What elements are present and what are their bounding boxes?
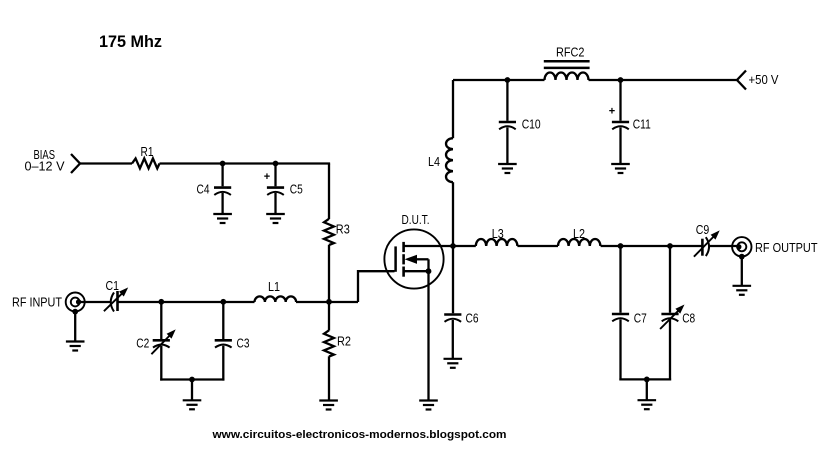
wire connector to ground — [74, 312, 76, 342]
svg-text:www.circuitos-electronicos-mod: www.circuitos-electronicos-modernos.blog… — [211, 429, 506, 441]
wire C7 C8 bottom rail — [619, 378, 671, 380]
svg-text:C3: C3 — [237, 336, 250, 351]
svg-text:L2: L2 — [573, 226, 585, 241]
channel segment middle — [402, 254, 405, 264]
svg-text:0–12 V: 0–12 V — [25, 159, 65, 174]
wire node to R2 — [328, 302, 330, 331]
R3 label — [336, 222, 350, 237]
L4 label — [428, 154, 440, 169]
wire C4 drop — [221, 164, 223, 187]
wire C10 to ground — [506, 128, 508, 165]
svg-text:RFC2: RFC2 — [556, 45, 585, 60]
BIAS terminal — [71, 154, 80, 173]
wire top rail left — [453, 79, 545, 81]
svg-text:C1: C1 — [106, 278, 120, 293]
capacitor C9 variable — [694, 230, 720, 256]
svg-text:C2: C2 — [136, 336, 149, 351]
svg-text:+50 V: +50 V — [749, 72, 779, 87]
svg-text:C4: C4 — [197, 181, 210, 196]
svg-text:+: + — [609, 106, 615, 118]
wire drain up — [452, 80, 454, 138]
capacitor C7 — [612, 311, 647, 326]
L2 label — [573, 226, 585, 241]
ground RF input — [66, 342, 85, 351]
wire top rail right — [589, 79, 738, 81]
wire drain to C6 — [452, 246, 454, 313]
title 175 Mhz — [99, 32, 162, 51]
node C8 junction — [667, 243, 673, 249]
node C11 junction — [618, 77, 624, 83]
+50V label — [749, 72, 779, 87]
wire drain to L3 — [453, 245, 476, 247]
wire rail to ground C7C8 — [646, 379, 648, 400]
inductor L2 — [558, 239, 600, 246]
wire C9 to connector — [708, 245, 738, 247]
ground C2 C3 — [183, 400, 202, 409]
capacitor C11 — [609, 106, 651, 132]
svg-text:175 Mhz: 175 Mhz — [99, 32, 162, 51]
capacitor C1 variable — [104, 287, 128, 311]
RF INPUT connector — [66, 293, 85, 312]
wire L4 to drain — [452, 182, 454, 246]
wire C2 drop — [160, 302, 162, 339]
ground C11 — [611, 164, 630, 173]
wire L2 to C9 — [601, 245, 703, 247]
wire source to ground — [427, 271, 429, 400]
ground RF output — [733, 286, 752, 295]
ground source — [419, 401, 438, 410]
wire C7 to rail — [619, 320, 621, 381]
node C7 C8 rail junction — [644, 377, 650, 383]
source stub — [404, 270, 429, 272]
wire corner to R3 — [328, 164, 330, 220]
svg-text:RF INPUT: RF INPUT — [12, 295, 62, 310]
capacitor C10 — [499, 117, 541, 132]
svg-text:C6: C6 — [466, 311, 479, 326]
wire C2 C3 bottom rail — [160, 378, 224, 380]
wire C7 drop — [619, 246, 621, 313]
ground R2 — [319, 401, 338, 410]
wire C5 drop — [274, 164, 276, 187]
wire C5 to ground — [274, 193, 276, 214]
RF INPUT label — [12, 295, 62, 310]
wire C6 to ground — [452, 320, 454, 359]
node gate junction — [326, 299, 332, 305]
choke RFC2 — [544, 61, 590, 80]
wire C3 drop — [222, 302, 224, 339]
wire C1 to L1 — [118, 301, 255, 303]
wire C2 to rail — [160, 346, 162, 381]
wire C8 drop — [669, 246, 671, 313]
wire R3 to gate node — [328, 245, 330, 302]
ground C4 — [213, 214, 232, 223]
R2 label — [337, 334, 351, 349]
ground C6 — [444, 359, 463, 368]
svg-text:L1: L1 — [268, 279, 280, 294]
ground C10 — [498, 164, 517, 173]
ground C5 — [266, 214, 285, 223]
wire R2 to ground — [328, 356, 330, 400]
capacitor C8 variable — [660, 305, 695, 330]
ground C7 C8 — [638, 400, 657, 409]
capacitor C2 variable — [136, 329, 175, 354]
wire C10 drop — [506, 80, 508, 121]
wire L1 to gate node — [296, 301, 358, 303]
svg-text:R1: R1 — [141, 144, 154, 159]
body arrow — [405, 255, 429, 272]
wire L3 to L2 — [517, 245, 558, 247]
C1 label — [106, 278, 120, 293]
RFC2 label — [556, 45, 585, 60]
L1 label — [268, 279, 280, 294]
node C7 junction — [618, 243, 624, 249]
node C5 junction — [273, 161, 279, 167]
wire output connector to ground — [741, 257, 743, 286]
node C2 junction — [158, 299, 164, 305]
channel segment bottom — [402, 267, 405, 277]
D.U.T. label — [402, 212, 430, 227]
svg-text:C8: C8 — [682, 311, 695, 326]
gate electrode — [394, 246, 397, 271]
wire C8 to rail — [669, 320, 671, 381]
C9 label — [696, 222, 710, 237]
+50V terminal — [737, 71, 746, 90]
node output ground junction — [739, 254, 745, 260]
node C4 junction — [220, 161, 226, 167]
inductor L3 — [476, 239, 518, 246]
svg-text:L4: L4 — [428, 154, 440, 169]
BIAS label — [25, 147, 65, 174]
RF OUTPUT label — [755, 240, 818, 255]
svg-text:C10: C10 — [522, 117, 541, 132]
node connector ground junction — [72, 309, 78, 315]
capacitor C6 — [444, 311, 478, 326]
inductor L1 — [255, 296, 297, 302]
svg-text:R3: R3 — [336, 222, 350, 237]
RF OUTPUT connector — [732, 237, 751, 256]
inductor L4 — [446, 138, 453, 182]
svg-text:R2: R2 — [337, 334, 351, 349]
node C10 junction — [505, 77, 511, 83]
capacitor C4 — [197, 181, 232, 196]
transistor D.U.T. circle — [384, 229, 443, 288]
wire bias to R1 — [80, 162, 132, 164]
node source junction — [426, 268, 432, 274]
R1 label — [141, 144, 154, 159]
wire C4 to ground — [221, 193, 223, 214]
resistor R3 — [324, 219, 334, 245]
node drain junction — [450, 243, 456, 249]
wire R1 to corner — [160, 162, 331, 164]
svg-text:RF OUTPUT: RF OUTPUT — [755, 240, 818, 255]
svg-text:C5: C5 — [290, 181, 303, 196]
wire gate path — [358, 271, 395, 302]
node C3 junction — [220, 299, 226, 305]
capacitor C5 — [264, 171, 303, 196]
capacitor C3 — [215, 336, 250, 351]
svg-text:D.U.T.: D.U.T. — [402, 212, 430, 227]
wire rail to ground — [191, 380, 193, 401]
wire C11 to ground — [619, 128, 621, 165]
node bottom rail junction — [189, 377, 195, 383]
footer url — [211, 429, 506, 441]
svg-text:+: + — [264, 171, 270, 183]
L3 label — [492, 226, 504, 241]
svg-text:C7: C7 — [634, 311, 647, 326]
drain stub — [404, 245, 453, 247]
wire connector to C1 — [79, 301, 111, 303]
svg-text:L3: L3 — [492, 226, 504, 241]
wire C3 to rail — [222, 346, 224, 381]
svg-text:C11: C11 — [633, 117, 651, 132]
resistor R1 — [132, 158, 160, 168]
channel segment top — [402, 242, 405, 252]
resistor R2 — [324, 330, 334, 356]
svg-text:C9: C9 — [696, 222, 710, 237]
wire C11 drop — [619, 80, 621, 121]
